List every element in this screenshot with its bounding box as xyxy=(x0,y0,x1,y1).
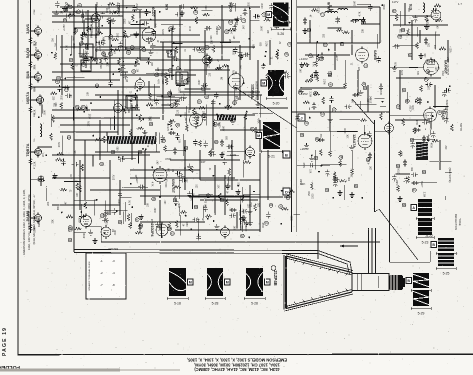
waveform photo 5-25b xyxy=(436,253,456,276)
svg-text:1500: 1500 xyxy=(118,32,120,38)
svg-text:1.7: 1.7 xyxy=(458,2,462,6)
ref number n23 xyxy=(206,194,210,198)
ref number m64 xyxy=(65,88,69,92)
resistor R45 xyxy=(129,222,132,229)
wire to HV anode xyxy=(379,209,418,260)
capacitor w4 xyxy=(133,105,140,109)
capacitor m259 xyxy=(55,1,59,8)
wire p3 xyxy=(328,27,342,29)
junction y31 xyxy=(248,38,250,40)
svg-text:2.2K: 2.2K xyxy=(35,161,37,166)
resistor r3 xyxy=(311,183,314,190)
wire m86 xyxy=(105,36,131,38)
ref number m15 xyxy=(277,11,281,15)
waveform photo 5-23b xyxy=(416,218,434,245)
wire n112 xyxy=(226,154,239,156)
resistor R93 xyxy=(399,150,402,157)
svg-text:1500: 1500 xyxy=(246,226,248,232)
capacitor y1 xyxy=(175,12,182,16)
svg-text:1500: 1500 xyxy=(164,182,166,188)
wire g64 xyxy=(267,150,269,200)
ref number q41 xyxy=(426,60,430,64)
capacitor r23 xyxy=(325,169,329,176)
ref number v8 xyxy=(79,41,83,45)
junction n22 xyxy=(61,212,63,214)
ground n38 xyxy=(139,214,144,220)
ref number r6 xyxy=(315,137,319,141)
ground n130 xyxy=(214,224,219,230)
resistor near 5U8 xyxy=(29,83,32,90)
svg-text:1500: 1500 xyxy=(309,190,311,196)
junction v22 xyxy=(115,11,117,13)
capacitor v12 xyxy=(79,14,86,18)
wire g73 xyxy=(300,87,345,89)
capacitor p55 xyxy=(344,105,351,109)
capacitor m151 xyxy=(167,74,174,78)
svg-text:+135V: +135V xyxy=(178,86,180,93)
junction r28 xyxy=(311,155,313,157)
ground r18 xyxy=(304,143,309,149)
wire ladder 11 xyxy=(130,177,235,179)
svg-text:10K: 10K xyxy=(197,194,199,199)
svg-text:.047: .047 xyxy=(240,64,242,69)
wire n61 xyxy=(131,213,133,226)
junction m255 xyxy=(173,42,175,44)
wire p28 xyxy=(302,88,312,90)
wire g56 xyxy=(131,105,133,160)
ground w51 xyxy=(202,115,207,121)
wire g72 xyxy=(305,54,350,56)
svg-text:4.7K: 4.7K xyxy=(395,61,397,66)
capacitor n135 xyxy=(169,131,176,135)
junction xyxy=(30,76,32,78)
ref number n147 xyxy=(67,135,71,139)
svg-text:J: J xyxy=(300,115,302,120)
ref number p63 xyxy=(362,82,366,86)
capacitor q63 xyxy=(412,181,419,185)
ground m3 xyxy=(179,11,184,17)
wire g21 xyxy=(179,5,181,70)
ref number xyxy=(173,198,177,202)
wire stub xyxy=(31,76,38,78)
svg-text:1M: 1M xyxy=(232,35,234,38)
wire xyxy=(86,226,101,228)
wire p22 xyxy=(355,103,377,105)
wire n97 xyxy=(180,215,182,235)
tube V17 xyxy=(431,8,441,22)
junction s3 xyxy=(38,116,40,118)
wire stub xyxy=(31,54,38,56)
control box fringe balance xyxy=(84,16,99,38)
ground m155 xyxy=(261,63,266,69)
tube 7DB7A xyxy=(34,146,41,157)
ground p58 xyxy=(299,62,304,68)
junction q220 xyxy=(427,101,429,103)
resistor w45 xyxy=(213,119,216,126)
junction r36 xyxy=(361,197,363,199)
resistor q64 xyxy=(451,124,454,131)
wire r14 xyxy=(321,164,347,166)
wire g57 xyxy=(154,10,156,28)
ref number m69 xyxy=(170,104,174,108)
wire g52 xyxy=(200,199,258,201)
ref number m8 xyxy=(201,48,205,52)
resistor y25 xyxy=(175,46,178,53)
svg-text:1500: 1500 xyxy=(443,70,445,76)
junction m139 xyxy=(243,82,245,84)
capacitor q23 xyxy=(411,141,415,148)
resistor m100 xyxy=(89,58,96,61)
svg-text:M: M xyxy=(257,134,260,138)
wire n68 xyxy=(197,218,199,238)
resistor p66 xyxy=(313,93,320,96)
svg-text:10K: 10K xyxy=(148,202,150,207)
ref number xyxy=(118,220,122,224)
wire y3 xyxy=(223,20,225,29)
capacitor n24 xyxy=(175,133,179,140)
wire q215 xyxy=(399,11,401,27)
wire stub xyxy=(31,30,38,32)
waveform photo 5-28a xyxy=(167,268,193,306)
wire g58 xyxy=(171,28,173,80)
ground x16 xyxy=(173,199,178,205)
svg-text:270V: 270V xyxy=(237,19,239,25)
wire g61 xyxy=(227,65,229,110)
junction m1 xyxy=(73,76,75,78)
capacitor C52 xyxy=(368,153,372,160)
wire m200 xyxy=(251,87,253,99)
svg-text:1M: 1M xyxy=(127,21,129,24)
ref number m165 xyxy=(202,113,206,117)
ref number m6 xyxy=(81,54,85,58)
junction m38 xyxy=(137,90,139,92)
svg-text:1M: 1M xyxy=(352,174,354,177)
ref number m54 xyxy=(205,46,209,50)
capacitor x18 xyxy=(118,191,122,198)
svg-text:470K: 470K xyxy=(430,143,432,149)
ref number m265 xyxy=(187,77,191,81)
ref number xyxy=(307,28,311,32)
resistor t12 xyxy=(282,208,289,211)
capacitor n12 xyxy=(229,214,236,218)
capacitor r4 xyxy=(367,131,371,138)
svg-text:FRINGE BALANCE: FRINGE BALANCE xyxy=(91,16,94,38)
capacitor m168 xyxy=(104,54,108,61)
svg-text:.0047: .0047 xyxy=(155,207,157,213)
svg-text:4.7K: 4.7K xyxy=(156,79,158,84)
wire p17 xyxy=(361,23,380,25)
wire q7 xyxy=(433,106,448,108)
wire m102 xyxy=(125,47,142,49)
alignment symbol xyxy=(38,176,44,182)
waveform photo 5-29b xyxy=(411,290,431,316)
wire n116 xyxy=(62,135,64,153)
junction u4 xyxy=(309,117,311,119)
wire n49 xyxy=(104,209,127,211)
wire m5 xyxy=(67,76,85,78)
ref number xyxy=(314,156,318,160)
junction n18 xyxy=(92,135,94,137)
capacitor p40 xyxy=(310,74,317,78)
ground g5 xyxy=(337,190,342,196)
wire xyxy=(390,66,424,68)
junction p48 xyxy=(382,101,384,103)
CRT ion trap xyxy=(271,266,276,271)
wire m250 xyxy=(113,101,115,123)
svg-text:1M: 1M xyxy=(221,77,223,80)
ref number xyxy=(422,170,426,174)
control box vert hold xyxy=(126,95,137,109)
wire n19 xyxy=(236,212,238,229)
resistor v14 xyxy=(73,28,76,35)
svg-text:.0047: .0047 xyxy=(224,125,226,131)
junction m125 xyxy=(171,128,173,130)
ref number x29 xyxy=(240,217,244,221)
svg-text:SPEAKER TERMINAL GUIDE: SPEAKER TERMINAL GUIDE xyxy=(88,261,91,291)
ref number r29 xyxy=(305,121,309,125)
svg-text:5-28: 5-28 xyxy=(212,302,219,306)
resistor x5 xyxy=(226,199,229,206)
tube small 4 xyxy=(221,226,230,239)
wire t2 xyxy=(242,215,244,232)
resistor n128 xyxy=(191,166,194,173)
ref number m137 xyxy=(109,35,113,39)
wire n86 xyxy=(161,224,163,239)
resistor m202 xyxy=(96,32,103,35)
svg-text:5-23: 5-23 xyxy=(422,241,429,245)
resistor q49 xyxy=(436,19,443,22)
svg-text:.0047: .0047 xyxy=(45,109,47,115)
resistor m196 xyxy=(164,72,167,79)
resistor u5 xyxy=(380,113,383,120)
resistor w8 xyxy=(137,127,144,130)
resistor m135 xyxy=(136,57,139,64)
svg-text:.047: .047 xyxy=(369,95,371,100)
junction p30 xyxy=(381,4,383,6)
resistor R92 xyxy=(416,97,419,104)
svg-text:.0047: .0047 xyxy=(262,3,264,9)
svg-text:5AQ5: 5AQ5 xyxy=(25,47,30,58)
waveform photo 5-20 xyxy=(261,70,286,106)
capacitor w2 xyxy=(155,98,159,105)
junction m156 xyxy=(51,52,53,54)
wire n138 xyxy=(92,155,94,167)
svg-text:+135V: +135V xyxy=(103,36,105,43)
ref number p33 xyxy=(309,54,313,58)
ref number w54 xyxy=(220,114,224,118)
wire g48 xyxy=(95,151,160,153)
capacitor w47 xyxy=(179,97,186,101)
svg-text:270V: 270V xyxy=(302,163,304,169)
svg-text:1500: 1500 xyxy=(61,95,63,101)
wire ladder 4 xyxy=(52,109,140,111)
capacitor m217 xyxy=(124,72,128,79)
ref number w20 xyxy=(197,100,201,104)
junction n9 xyxy=(118,157,120,159)
svg-text:.0047: .0047 xyxy=(355,0,357,6)
ref number m16 xyxy=(130,46,134,50)
wire g42 xyxy=(130,34,200,36)
resistor p6 xyxy=(302,63,309,66)
svg-text:.0047: .0047 xyxy=(117,199,119,205)
ref number n106 xyxy=(167,227,171,231)
svg-text:2.2M: 2.2M xyxy=(323,79,325,84)
ref number r26 xyxy=(366,158,370,162)
peaking coil L30 xyxy=(423,3,425,13)
wire m172 xyxy=(114,116,116,130)
wire t9 xyxy=(240,204,242,224)
resistor w27 xyxy=(174,101,177,108)
svg-text:6SN7GT: 6SN7GT xyxy=(171,179,175,194)
junction q1 xyxy=(427,19,429,21)
wire g4 xyxy=(60,63,140,65)
horizontal wire AGC xyxy=(297,42,380,44)
wire q22 xyxy=(430,161,452,163)
resistor near 10B7A xyxy=(29,106,32,113)
svg-text:10K: 10K xyxy=(178,139,180,144)
tube 5AM8 xyxy=(34,212,41,223)
capacitor x10 xyxy=(138,185,145,189)
CRT 21ZP4B funnel xyxy=(284,254,389,312)
wire m177 xyxy=(220,42,231,44)
svg-text:1500: 1500 xyxy=(125,18,127,24)
junction q35 xyxy=(449,85,451,87)
ref number v36 xyxy=(77,3,81,7)
tube small 2 xyxy=(203,54,212,67)
svg-text:470K: 470K xyxy=(256,118,258,124)
resistor y19 xyxy=(191,6,198,9)
junction w14 xyxy=(219,103,221,105)
ref number xyxy=(354,184,358,188)
ref number p43 xyxy=(332,108,336,112)
svg-text:1M: 1M xyxy=(268,30,270,33)
capacitor C44 xyxy=(138,224,142,231)
ground r13 xyxy=(309,156,314,162)
terminal panel box xyxy=(86,253,126,299)
tube V9 6SN7GT xyxy=(153,166,167,184)
tube V5 6AW8 xyxy=(356,47,369,64)
ref number xyxy=(340,42,344,46)
capacitor m18 xyxy=(65,94,72,98)
tube V7 12AU7A xyxy=(358,132,372,150)
junction n134 xyxy=(131,206,133,208)
wire q46 xyxy=(435,32,437,50)
capacitor C50 xyxy=(333,176,337,183)
wire w49 xyxy=(206,56,208,76)
ref number m67 xyxy=(229,117,233,121)
ground w29 xyxy=(230,119,235,125)
wire g5 xyxy=(80,99,180,101)
ground m59 xyxy=(133,61,138,66)
resistor n67 xyxy=(66,215,73,218)
wire g13 xyxy=(130,169,200,171)
wire n103 xyxy=(227,177,229,185)
svg-text:.0047: .0047 xyxy=(154,136,156,142)
svg-text:+140V: +140V xyxy=(299,57,308,61)
capacitor n17 xyxy=(203,205,207,212)
model list caption (rotated) xyxy=(187,358,287,372)
wire g45 xyxy=(155,69,230,71)
svg-text:1500: 1500 xyxy=(313,193,315,199)
wire m72 xyxy=(250,19,259,21)
wire xyxy=(329,131,331,150)
wire g35 xyxy=(357,70,359,95)
junction r38 xyxy=(321,165,323,167)
ref number p14 xyxy=(298,90,302,94)
svg-text:DEFLECTION: DEFLECTION xyxy=(454,214,458,231)
ref number n29 xyxy=(170,232,174,236)
svg-text:2.2M: 2.2M xyxy=(397,180,399,185)
junction m71 xyxy=(112,73,114,75)
ref number n81 xyxy=(68,226,72,230)
ref number m29 xyxy=(205,95,209,99)
wire xyxy=(106,144,108,152)
wire g19 xyxy=(139,10,141,60)
wire n111 xyxy=(178,177,180,199)
svg-text:5-20: 5-20 xyxy=(273,102,280,106)
resistor s0 xyxy=(50,92,57,95)
resistor w13 xyxy=(146,103,153,106)
wire stub xyxy=(31,217,38,219)
wire s13 xyxy=(51,114,53,127)
svg-text:270V: 270V xyxy=(114,174,116,180)
svg-text:2.2M: 2.2M xyxy=(74,43,76,48)
wire g0 xyxy=(52,15,123,17)
resistor m116 xyxy=(112,11,119,14)
wire xyxy=(239,197,241,230)
wire xyxy=(297,130,358,132)
resistor p42 xyxy=(316,75,319,82)
resistor p18 xyxy=(343,31,350,34)
waveform photo 5-29a xyxy=(406,273,431,292)
ref number n73 xyxy=(100,162,104,166)
resistor m46 xyxy=(276,49,279,56)
CRT pin wire 2 xyxy=(371,228,373,273)
wire m50 xyxy=(153,84,155,102)
wire g47 xyxy=(60,124,130,126)
wire xyxy=(100,227,102,243)
wire g39 xyxy=(419,30,421,43)
capacitor q11 xyxy=(413,15,417,22)
vertical wire video xyxy=(259,120,261,232)
resistor R42 xyxy=(209,150,212,157)
wire s7 xyxy=(45,186,47,201)
junction m146 xyxy=(168,30,170,32)
T3 lead xyxy=(155,132,157,136)
resistor n44 xyxy=(84,202,87,209)
wire g38 xyxy=(439,140,441,170)
capacitor p5 xyxy=(336,17,340,24)
svg-text:M: M xyxy=(266,280,269,284)
resistor p9 xyxy=(317,54,320,61)
capacitor r8 xyxy=(308,163,315,167)
resistor m176 xyxy=(149,93,152,100)
junction m181 xyxy=(277,18,279,20)
svg-text:33K: 33K xyxy=(245,53,247,58)
wire g46 xyxy=(175,114,255,116)
resistor m148 xyxy=(131,15,134,22)
junction xyxy=(30,217,32,219)
capacitor n64 xyxy=(72,162,79,166)
svg-text:470K: 470K xyxy=(415,120,417,126)
ref number n84 xyxy=(135,218,139,222)
svg-text:-3: -3 xyxy=(112,259,115,263)
svg-text:470K: 470K xyxy=(97,26,99,32)
ref number p7 xyxy=(320,13,324,17)
wire xyxy=(159,185,161,197)
wire x9 xyxy=(199,193,213,195)
capacitor C93 xyxy=(414,128,421,132)
